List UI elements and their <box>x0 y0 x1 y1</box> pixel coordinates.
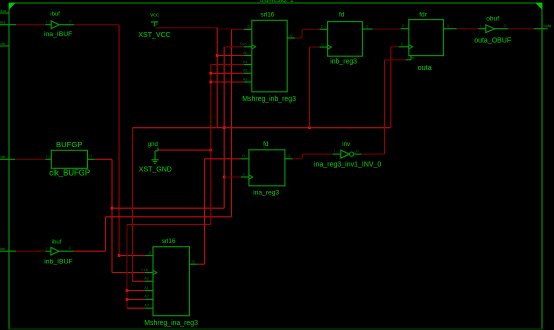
svg-text:gnd: gnd <box>148 142 158 148</box>
svg-text:outa_OBUF: outa_OBUF <box>474 37 511 44</box>
svg-text:D: D <box>402 24 405 28</box>
node gnd A2 junction <box>210 72 213 75</box>
wire vcc out <box>156 27 217 29</box>
svg-text:I: I <box>480 24 481 28</box>
wire to D of Mshreg_ina_reg3 <box>119 255 145 257</box>
fd U inb_reg3 box <box>328 22 363 57</box>
svg-text:D: D <box>242 154 245 158</box>
wire inb input <box>16 250 45 252</box>
svg-text:D: D <box>321 25 324 29</box>
svg-text:I: I <box>334 149 335 153</box>
buffer obuf outa_OBUF <box>486 25 495 33</box>
wire gnd vertical <box>210 65 212 225</box>
pin A0 stub <box>145 280 153 282</box>
gnd symbol <box>148 142 159 164</box>
pin C wedge <box>328 45 332 49</box>
buffer ibuf ina_IBUF <box>51 21 59 29</box>
svg-text:obuf: obuf <box>486 15 499 22</box>
node clk trunk inb_reg3 junction <box>308 126 311 129</box>
pin stub O <box>88 158 95 160</box>
svg-text:A2: A2 <box>144 295 148 299</box>
pin D stub <box>244 28 252 30</box>
svg-text:A3: A3 <box>243 77 247 81</box>
svg-text:CLK: CLK <box>240 42 248 46</box>
pin A0 stub <box>244 55 252 57</box>
svg-text:A2: A2 <box>243 69 247 73</box>
svg-text:D: D <box>248 25 251 29</box>
pin D stub <box>241 158 249 160</box>
wire to inb_reg3 D <box>302 28 320 30</box>
svg-text:ina: ina <box>1 8 7 13</box>
svg-text:srl16: srl16 <box>261 12 275 19</box>
svg-text:O: O <box>89 154 92 158</box>
wire Q riser <box>301 29 303 38</box>
wire to fdr C <box>391 46 399 48</box>
node clk trunk junction <box>223 126 226 129</box>
fdr U outa box <box>409 20 444 56</box>
pin stub I <box>478 28 486 30</box>
wire gnd out <box>159 149 211 151</box>
wire riser <box>301 154 303 159</box>
pin stub O <box>495 28 509 30</box>
pin C stub <box>241 176 249 178</box>
wire clk vertical main <box>111 159 113 272</box>
svg-text:BUFGP: BUFGP <box>56 140 82 149</box>
svg-text:C: C <box>243 172 246 176</box>
wire clk to Mshreg_inb_reg3 CLK <box>224 46 244 48</box>
pin D stub <box>401 28 409 30</box>
pin stub O of ibuf <box>59 24 74 26</box>
pin C stub <box>399 46 409 48</box>
svg-text:clk: clk <box>1 41 6 46</box>
svg-text:C: C <box>321 42 324 46</box>
pin stub O <box>59 250 74 252</box>
srl16 U Mshreg_ina_reg3 box <box>153 247 189 316</box>
svg-text:ina_reg3: ina_reg3 <box>253 189 279 196</box>
svg-text:ibuf: ibuf <box>50 11 60 17</box>
srl16 U Mshreg_inb_reg3 box <box>252 20 287 92</box>
port inb (left border) <box>0 246 16 251</box>
port clk (left border) <box>0 154 15 160</box>
buffer BUFGP clk_BUFGP <box>51 150 87 168</box>
wire gnd vertical lower <box>126 225 128 309</box>
wire inv out <box>361 153 384 155</box>
node gnd junction <box>210 149 213 152</box>
svg-text:Mshreg_inb_reg3: Mshreg_inb_reg3 <box>242 96 296 103</box>
wire ina_IBUF horizontal <box>74 24 119 26</box>
wire gnd to A3 top <box>211 81 244 83</box>
wire faint bridge <box>217 28 231 30</box>
pin A2 stub <box>145 298 153 300</box>
svg-text:ina_IBUF: ina_IBUF <box>44 31 72 38</box>
port ina (left border) <box>0 19 16 24</box>
wire outa to border <box>508 28 533 30</box>
pin stub I <box>45 250 51 252</box>
svg-text:outa: outa <box>544 23 553 28</box>
wire clk riser to inb_reg3 C <box>309 47 311 128</box>
svg-text:clk_BUFGP: clk_BUFGP <box>49 169 90 178</box>
svg-text:A0: A0 <box>243 51 247 55</box>
svg-text:A0: A0 <box>144 277 148 281</box>
wire inb_reg3 Q to fdr D <box>373 28 401 30</box>
wire vcc vertical <box>216 28 218 128</box>
inverter inv <box>341 150 350 158</box>
pin C stub <box>320 46 328 48</box>
wire vcc to A0 bottom <box>133 280 146 282</box>
svg-text:fd: fd <box>263 141 269 148</box>
svg-text:A3: A3 <box>144 304 148 308</box>
pin Q stub <box>443 28 456 30</box>
wire vcc down-left leg <box>132 128 134 282</box>
svg-text:inb: inb <box>0 246 6 251</box>
pin Q stub <box>287 37 295 39</box>
svg-text:I: I <box>46 20 47 24</box>
buffer ibuf inb_IBUF <box>51 247 59 255</box>
pin CLK stub <box>244 46 252 48</box>
svg-text:inv: inv <box>342 142 350 148</box>
wire inb_IBUF horizontal <box>74 250 106 252</box>
svg-text:C: C <box>401 42 404 46</box>
svg-text:ina_reg3_inv1_INV_0: ina_reg3_inv1_INV_0 <box>314 162 381 169</box>
svg-text:inb_reg3: inb_reg3 <box>330 59 357 66</box>
wire clk trunk horizontal <box>133 127 391 129</box>
pin CLK wedge <box>252 45 256 49</box>
node clk ina_reg3 C junction <box>223 176 226 179</box>
pin C wedge <box>249 175 253 179</box>
wire inb_IBUF vertical up <box>105 217 107 251</box>
wire gnd to A3 bottom <box>127 307 145 309</box>
svg-text:outa: outa <box>418 63 432 72</box>
wire clk horizontal link <box>112 207 224 209</box>
pin Q stub <box>362 28 372 30</box>
wire R to inverter output <box>385 59 406 61</box>
pin stub I <box>45 158 51 160</box>
inverter bubble <box>350 152 354 156</box>
node gnd A3 junction <box>210 81 213 84</box>
svg-text:R: R <box>412 56 415 60</box>
wire vcc to A0 top <box>217 55 244 57</box>
port flag tick clk <box>0 41 9 46</box>
svg-text:O: O <box>356 149 359 153</box>
svg-text:fd: fd <box>339 12 345 19</box>
svg-text:fdr: fdr <box>419 12 427 19</box>
wire gnd horizontal link lower <box>127 224 211 226</box>
pin C wedge <box>409 45 413 49</box>
pin A2 stub <box>244 72 252 74</box>
wire clk vertical riser <box>223 47 225 208</box>
pin CLK wedge <box>153 270 157 274</box>
wire Q of Mshreg_ina_reg3 <box>197 263 204 265</box>
svg-text:XST_VCC: XST_VCC <box>138 32 170 39</box>
wire R riser <box>384 60 386 154</box>
wire to inv input <box>302 153 332 155</box>
node vcc A0 junction <box>216 54 219 57</box>
svg-text:clk: clk <box>1 154 6 159</box>
svg-text:A1: A1 <box>144 286 148 290</box>
port outa (right border) <box>534 23 552 29</box>
port flag tick upper <box>0 8 9 13</box>
node gnd A1 bottom junction <box>126 289 129 292</box>
wire ina_reg3 Q out <box>293 158 303 160</box>
wire Q of Mshreg_inb_reg3 <box>295 37 302 39</box>
vcc symbol <box>150 12 159 27</box>
pin R stub <box>410 56 412 60</box>
wire ina_reg3 D horizontal <box>205 158 241 160</box>
pin Q stub <box>285 158 293 160</box>
wire clk to ina_reg3 C <box>224 176 241 178</box>
svg-text:CLK: CLK <box>141 268 149 272</box>
svg-text:XST_GND: XST_GND <box>139 167 172 174</box>
wire gnd to A1 top <box>211 64 244 66</box>
svg-text:O: O <box>68 246 71 250</box>
svg-text:I: I <box>46 155 47 159</box>
pin D stub <box>145 255 153 257</box>
pin A3 stub <box>244 81 252 83</box>
wire fdr Q to obuf <box>457 28 479 30</box>
node ina_IBUF to D junction <box>118 254 121 257</box>
svg-text:inb_IBUF: inb_IBUF <box>44 258 72 265</box>
pin Q stub <box>189 263 197 265</box>
pin stub I of ibuf <box>45 24 51 26</box>
wire ina_IBUF vertical down to Mshreg_ina_reg3 D <box>118 25 120 256</box>
pin A1 stub <box>244 64 252 66</box>
wire to inb_reg3 C <box>310 46 320 48</box>
node gnd A2 bottom junction <box>126 298 129 301</box>
wire clk_BUFGP out <box>95 158 112 160</box>
svg-text:Q: Q <box>288 154 291 158</box>
pin stub O <box>354 153 362 155</box>
svg-text:Q: Q <box>366 24 369 28</box>
svg-text:Mshreg_ina_reg3: Mshreg_ina_reg3 <box>144 320 198 327</box>
corner marker top-left <box>9 3 16 10</box>
svg-text:Q: Q <box>290 33 293 37</box>
wire inb_IBUF horizontal mid <box>106 216 232 218</box>
svg-text:O: O <box>69 20 72 24</box>
wire gnd to A2 top <box>211 72 244 74</box>
wire ina input <box>16 24 45 26</box>
pin stub I <box>333 153 341 155</box>
wire inb_IBUF vertical up to top <box>231 29 233 216</box>
svg-text:D: D <box>149 251 152 255</box>
svg-text:ina: ina <box>0 19 6 24</box>
wire clk to Mshreg_ina_reg3 CLK <box>112 272 145 274</box>
corner marker top-right <box>536 3 543 10</box>
svg-text:A1: A1 <box>243 60 247 64</box>
pin CLK stub <box>145 272 153 274</box>
wire inb_IBUF to D of Mshreg_inb_reg3 <box>232 28 244 30</box>
pin A3 stub <box>145 307 153 309</box>
svg-text:O: O <box>504 24 507 28</box>
svg-text:Q: Q <box>447 24 450 28</box>
svg-text:ibuf: ibuf <box>52 240 62 246</box>
wire ina_reg3 D vertical from Mshreg_ina_reg3 Q <box>204 159 206 264</box>
wire clk riser to fdr C <box>390 47 392 128</box>
svg-text:I: I <box>46 247 47 251</box>
svg-text:vcc: vcc <box>150 12 159 18</box>
pin D stub <box>320 28 328 30</box>
fd U ina_reg3 box <box>249 150 285 186</box>
svg-text:Q: Q <box>192 260 195 264</box>
svg-text:srl16: srl16 <box>162 238 176 245</box>
node clk junction <box>111 207 114 210</box>
wire gnd to A1 bottom <box>127 290 145 292</box>
wire clk input <box>15 158 45 160</box>
wire gnd to A2 bottom <box>127 298 145 300</box>
pin A1 stub <box>145 290 153 292</box>
